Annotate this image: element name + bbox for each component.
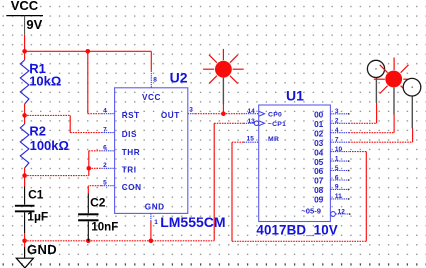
svg-text:CON: CON xyxy=(122,183,142,192)
svg-text:04: 04 xyxy=(314,147,324,157)
svg-text:14: 14 xyxy=(247,108,255,115)
svg-text:10: 10 xyxy=(335,146,343,153)
svg-text:1: 1 xyxy=(154,219,158,226)
svg-text:9: 9 xyxy=(335,184,339,191)
svg-text:6: 6 xyxy=(335,174,339,181)
svg-text:1µF: 1µF xyxy=(27,209,48,223)
svg-text:DIS: DIS xyxy=(122,130,137,139)
svg-text:100kΩ: 100kΩ xyxy=(30,138,69,153)
svg-text:8: 8 xyxy=(153,76,157,83)
svg-text:11: 11 xyxy=(335,193,342,200)
svg-text:13: 13 xyxy=(247,118,255,125)
svg-text:00: 00 xyxy=(314,110,324,120)
svg-text:TRI: TRI xyxy=(122,166,137,175)
svg-text:09: 09 xyxy=(314,195,324,205)
svg-text:08: 08 xyxy=(314,185,324,195)
svg-text:CP0: CP0 xyxy=(268,112,282,119)
svg-text:U1: U1 xyxy=(286,88,304,104)
svg-text:10kΩ: 10kΩ xyxy=(29,74,61,89)
svg-text:C2: C2 xyxy=(90,196,106,210)
svg-text:~CP1: ~CP1 xyxy=(268,121,286,128)
svg-text:4: 4 xyxy=(335,127,339,134)
svg-text:7: 7 xyxy=(103,126,107,133)
svg-text:3: 3 xyxy=(189,107,193,114)
svg-text:LM555CM: LM555CM xyxy=(160,214,225,230)
svg-text:7: 7 xyxy=(335,137,339,144)
svg-text:2: 2 xyxy=(335,118,339,125)
svg-text:02: 02 xyxy=(314,128,324,138)
svg-text:C1: C1 xyxy=(28,188,44,202)
svg-text:6: 6 xyxy=(103,145,107,152)
svg-text:~05-9: ~05-9 xyxy=(301,207,321,216)
svg-text:R2: R2 xyxy=(29,124,46,139)
svg-text:GND: GND xyxy=(145,203,165,212)
svg-text:12: 12 xyxy=(338,208,346,215)
svg-text:2: 2 xyxy=(103,162,107,169)
svg-text:VCC: VCC xyxy=(142,93,161,102)
svg-text:MR: MR xyxy=(268,136,279,143)
svg-text:5: 5 xyxy=(335,165,339,172)
svg-text:U2: U2 xyxy=(170,70,188,86)
svg-text:OUT: OUT xyxy=(161,111,180,120)
svg-text:4017BD_10V: 4017BD_10V xyxy=(256,223,337,238)
svg-text:RST: RST xyxy=(122,111,140,120)
svg-text:06: 06 xyxy=(314,166,324,176)
svg-text:15: 15 xyxy=(247,136,255,143)
svg-text:3: 3 xyxy=(335,108,339,115)
svg-text:10nF: 10nF xyxy=(91,222,118,234)
svg-text:THR: THR xyxy=(122,148,140,157)
svg-text:5: 5 xyxy=(103,180,107,187)
svg-text:9V: 9V xyxy=(26,17,42,32)
svg-text:GND: GND xyxy=(27,242,57,257)
svg-text:VCC: VCC xyxy=(11,0,39,13)
svg-text:1: 1 xyxy=(335,155,339,162)
svg-text:4: 4 xyxy=(103,108,107,115)
